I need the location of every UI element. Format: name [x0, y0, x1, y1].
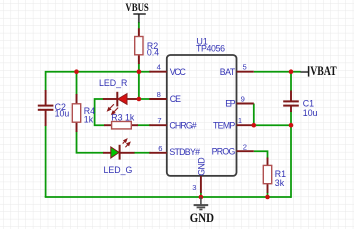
U1 pin 4 VCC stub: [149, 71, 167, 73]
svg-text:0.4: 0.4: [147, 48, 159, 58]
wire PROG to R1: [254, 151, 268, 158]
svg-text:LED_R: LED_R: [99, 78, 127, 88]
wire VCC row horizontal: [46, 72, 151, 91]
svg-text:10u: 10u: [55, 109, 70, 119]
svg-text:VCC: VCC: [170, 67, 187, 77]
U1 pin 9 EP stub: [237, 103, 254, 105]
resistor R1: [263, 165, 271, 183]
resistor R2 leads: [138, 28, 140, 36]
wire R3 right to CHRG# pin: [137, 124, 150, 126]
LED LED_R cathode bar: [116, 92, 118, 107]
resistor R1 leads: [267, 158, 269, 166]
svg-text:1k: 1k: [84, 114, 94, 124]
svg-text:3: 3: [192, 183, 196, 192]
junction dot TEMP/C1: [289, 123, 294, 128]
junction dot R2 bottom: [137, 69, 142, 74]
svg-text:GND: GND: [197, 157, 207, 176]
svg-text:STDBY#: STDBY#: [169, 147, 200, 157]
capacitor C2 leads: [45, 90, 47, 106]
LED_R emission arrows: [108, 104, 119, 114]
wire right rail up to TEMP row: [290, 111, 292, 198]
svg-text:5: 5: [242, 63, 246, 72]
U1 pin 5 BAT stub: [237, 71, 254, 73]
resistor R3 leads: [104, 124, 112, 126]
junction dot EP/TEMP: [252, 123, 257, 128]
svg-text:7: 7: [157, 116, 161, 125]
resistor R3: [112, 122, 132, 129]
wire left rail below C2 to bottom: [45, 126, 47, 198]
wire R4 bottom to LED_G row: [77, 132, 104, 153]
svg-text:R3 1k: R3 1k: [111, 113, 135, 123]
wire R1 bottom to ground rail: [267, 193, 269, 198]
svg-text:BAT: BAT: [220, 67, 236, 77]
svg-text:9: 9: [241, 95, 245, 104]
svg-text:6: 6: [158, 144, 162, 153]
U1 pin 1 TEMP stub: [237, 124, 254, 126]
wire BAT row to VBAT flag: [254, 71, 301, 73]
wire C1 top to BAT row: [290, 72, 292, 91]
ground symbol: [194, 197, 209, 210]
resistor R4 leads: [76, 94, 78, 104]
wire R4 top from VCC row: [76, 72, 78, 95]
LED LED_G cathode bar: [119, 145, 121, 160]
capacitor C2: [38, 105, 54, 107]
svg-text:GND: GND: [190, 210, 214, 225]
LED LED_R triangle: [118, 94, 127, 105]
wire EP vertical to TEMP row: [253, 104, 255, 126]
svg-text:EP: EP: [225, 99, 236, 109]
net flag VBAT: [301, 64, 338, 78]
op-amp U1 TP4056 IC body: [167, 55, 237, 176]
svg-text:CE: CE: [170, 94, 181, 104]
wire VBUS flag stub green part: [138, 22, 140, 29]
svg-text:TP4056: TP4056: [196, 44, 225, 54]
svg-text:TEMP: TEMP: [213, 120, 235, 130]
svg-text:3k: 3k: [275, 178, 285, 188]
wire bottom ground rail: [45, 196, 291, 198]
junction dot LED_R anode: [137, 97, 142, 102]
U1 pin 3 GND stub: [200, 176, 202, 193]
svg-text:2: 2: [243, 142, 247, 151]
wire LED_G right to STDBY# pin: [134, 152, 151, 154]
svg-text:8: 8: [157, 90, 161, 99]
svg-text:4: 4: [157, 63, 161, 72]
svg-text:VBUS: VBUS: [125, 2, 148, 14]
net flag VBUS: [125, 2, 148, 22]
svg-text:C1: C1: [303, 98, 314, 108]
LED_R leads: [103, 98, 117, 100]
svg-text:VBAT: VBAT: [310, 64, 337, 78]
resistor R2: [135, 37, 143, 55]
wire R2 bottom to VCC row and down to CE row: [138, 64, 140, 100]
junction dot BAT/VBAT: [289, 69, 294, 74]
svg-text:10u: 10u: [303, 108, 318, 118]
U1 pin 2 PROG stub: [237, 150, 254, 152]
LED LED_G triangle: [111, 147, 119, 158]
svg-text:CHRG#: CHRG#: [169, 120, 196, 130]
wire TEMP row: [254, 124, 291, 126]
junction dot R4/VCC: [74, 69, 79, 74]
svg-text:PROG: PROG: [212, 146, 236, 156]
U1 pin 7 CHRG# stub: [149, 124, 167, 126]
wire LED_R cathode to R3 left: [95, 99, 105, 125]
capacitor C1: [283, 100, 299, 102]
svg-text:LED_G: LED_G: [104, 165, 133, 175]
svg-text:1: 1: [238, 116, 242, 125]
LED_G emission arrows: [123, 139, 130, 147]
junction dot GND rail: [199, 195, 204, 200]
U1 pin 6 STDBY# stub: [149, 152, 167, 154]
capacitor C1 leads: [290, 91, 292, 102]
wire CE row from LED_R junction: [139, 98, 151, 100]
wire GND pin to ground rail: [200, 193, 202, 198]
U1 pin 8 CE stub: [149, 98, 167, 100]
resistor R4: [72, 104, 80, 122]
junction dot R1/ground rail: [265, 195, 270, 200]
LED_G leads: [103, 152, 111, 154]
